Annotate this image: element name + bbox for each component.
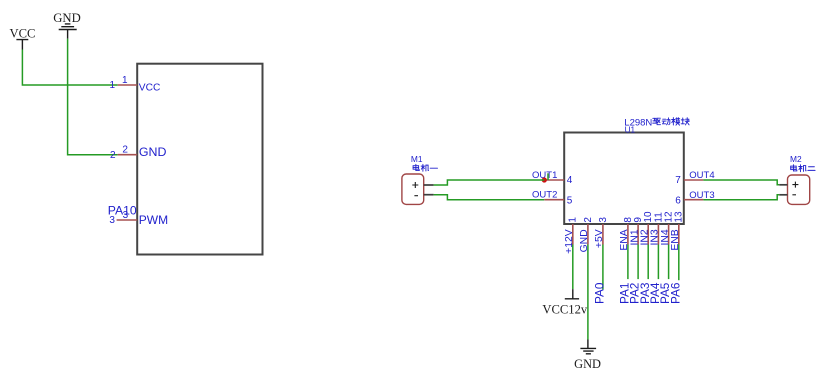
svg-text:13: 13 xyxy=(674,211,685,223)
ground GND (bottom) xyxy=(574,340,601,371)
wire from pin 13 xyxy=(678,245,680,281)
svg-text:7: 7 xyxy=(675,175,681,186)
wire stub at OUT1 junction xyxy=(547,173,549,180)
svg-text:2: 2 xyxy=(110,150,116,161)
wire from pin 10 xyxy=(647,245,649,280)
svg-text:1: 1 xyxy=(122,75,128,86)
pin 1 +12V xyxy=(564,217,579,254)
svg-text:1: 1 xyxy=(110,80,116,91)
svg-text:2: 2 xyxy=(122,145,128,156)
wire from pin 11 xyxy=(657,245,659,280)
ground GND (top) xyxy=(53,11,81,39)
label L298N driver module xyxy=(624,117,689,128)
wire OUT3 to M2- xyxy=(703,195,779,200)
svg-text:U1: U1 xyxy=(625,125,636,134)
pin 10 IN2 xyxy=(639,211,654,245)
svg-text:GND: GND xyxy=(574,357,601,371)
pin 1 VCC xyxy=(110,75,161,94)
pin 8 ENA xyxy=(619,217,634,251)
pin 2 GND xyxy=(579,217,594,253)
pin 7 OUT4 xyxy=(675,170,714,186)
wire OUT4 to M2+ xyxy=(703,180,779,185)
svg-text:GND: GND xyxy=(53,11,81,25)
wire from pin 2 xyxy=(587,245,589,340)
svg-text:PA0: PA0 xyxy=(593,282,607,304)
pin 6 OUT3 xyxy=(675,190,714,206)
power flag VCC12v xyxy=(542,289,587,316)
svg-text:6: 6 xyxy=(675,195,681,206)
module box U1 (L298N) xyxy=(564,133,684,225)
pin 5 OUT2 xyxy=(532,190,573,207)
svg-text:PA10: PA10 xyxy=(108,203,137,217)
wire VCC net to pin 1 xyxy=(22,50,117,86)
wire M1+ to OUT1 xyxy=(434,180,545,185)
wire M1- to OUT2 xyxy=(434,195,545,200)
svg-text:5: 5 xyxy=(567,195,573,206)
pin 13 ENB xyxy=(670,211,685,251)
wire from pin 8 xyxy=(627,245,629,280)
junction dot xyxy=(542,177,547,182)
wire from pin 9 xyxy=(637,245,639,280)
M1 pin - xyxy=(424,194,434,196)
svg-text:2: 2 xyxy=(583,217,594,223)
svg-text:VCC: VCC xyxy=(10,27,36,41)
svg-text:PWM: PWM xyxy=(139,213,168,227)
pin 11 IN3 xyxy=(650,212,665,246)
svg-text:GND: GND xyxy=(139,145,167,159)
wire from pin 1 xyxy=(572,245,574,290)
svg-text:VCC: VCC xyxy=(139,83,161,94)
component box (MCU) xyxy=(137,64,262,255)
pin 3 PWM xyxy=(109,210,168,227)
svg-text:VCC12v: VCC12v xyxy=(542,302,587,316)
svg-text:1: 1 xyxy=(568,217,579,223)
wire from pin 12 xyxy=(668,245,670,280)
pin 12 IN4 xyxy=(660,211,675,245)
pin 9 IN1 xyxy=(629,217,644,246)
pin 4 OUT1 xyxy=(532,170,573,186)
M1 pin + xyxy=(424,184,434,186)
power flag VCC xyxy=(10,27,36,50)
svg-text:M2: M2 xyxy=(790,154,802,164)
svg-text:4: 4 xyxy=(567,175,573,186)
svg-text:3: 3 xyxy=(598,217,609,223)
connector M2 motor 2 xyxy=(779,154,815,204)
pin 3 +5V xyxy=(594,217,609,248)
connector M1 motor 1 xyxy=(402,154,438,205)
pin 2 GND xyxy=(110,145,166,162)
M2 pin - xyxy=(779,194,787,196)
wire from pin 3 xyxy=(602,245,604,290)
M2 pin + xyxy=(779,184,787,186)
wire GND net to pin 2 xyxy=(68,39,118,155)
svg-text:M1: M1 xyxy=(411,154,423,164)
svg-text:PA6: PA6 xyxy=(668,282,682,304)
